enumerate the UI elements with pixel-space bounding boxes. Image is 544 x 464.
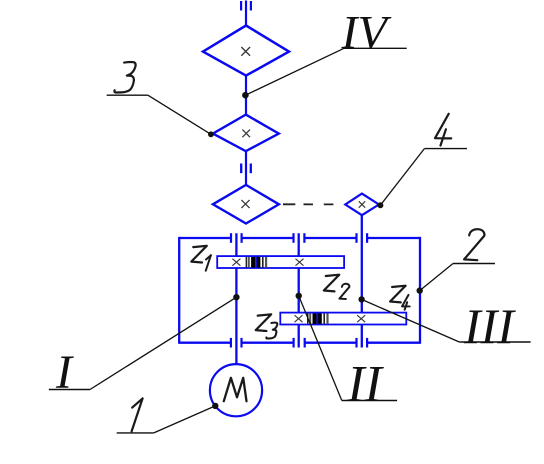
bearing on bottom edge at shaft III: [357, 338, 368, 348]
node at left vertex of middle diamond: [208, 131, 214, 137]
underline of label I: [49, 389, 90, 391]
gearbox housing left edge: [178, 237, 180, 344]
motor letter M: [224, 378, 247, 401]
leader line to label I: [90, 297, 236, 389]
underline of label III: [459, 341, 530, 343]
wire shaft III from diamond 4 down into gearbox: [361, 215, 363, 347]
x mark on lower gear at shaft II: [295, 315, 303, 322]
label 2: [464, 229, 484, 260]
bearing B5 (between diamond 2 and diamond 3): [241, 164, 251, 174]
leader line to label 3: [148, 95, 211, 134]
motor M circle: [210, 364, 262, 416]
leader line to label III: [362, 299, 460, 342]
bearing on bottom edge at shaft II: [294, 338, 305, 348]
underline of label II: [342, 400, 397, 402]
x mark in small diamond: [359, 201, 365, 207]
svg-text:IV: IV: [341, 7, 392, 60]
gear U1 (large diamond on shaft IV): [203, 26, 289, 76]
svg-text:II: II: [346, 356, 384, 413]
underline of label 3: [107, 94, 148, 96]
dashed link between diamond 3 and diamond 4: [283, 203, 345, 205]
underline of label 4: [424, 148, 467, 150]
blue divider inside upper gear hatch: [255, 256, 257, 268]
leader line to label 1: [154, 406, 216, 433]
node at right vertex of small diamond: [377, 202, 383, 208]
x mark in large diamond: [241, 47, 250, 56]
x mark in middle diamond: [242, 130, 250, 138]
label z1: [191, 246, 211, 271]
leader line to label 2: [420, 264, 453, 291]
gearbox housing right edge: [419, 237, 421, 344]
bearing on bottom edge at shaft I: [231, 338, 242, 348]
label z2: [324, 275, 350, 299]
bearing on top edge at shaft I: [231, 233, 242, 243]
underline of label 2: [453, 263, 495, 265]
bearing on top edge at shaft II: [294, 233, 305, 243]
node on housing right edge: [417, 287, 423, 293]
label z3: [256, 314, 278, 338]
gear block z1-z2 (upper gear rectangle): [217, 256, 344, 268]
label z4: [390, 286, 410, 310]
leader line to label IV: [245, 48, 344, 95]
node on shaft III: [358, 296, 364, 302]
svg-text:III: III: [463, 298, 516, 354]
leader line to label II: [299, 296, 342, 401]
gear block z3-z4 (lower gear rectangle): [280, 313, 406, 325]
node on motor circle: [212, 403, 218, 409]
label 4: [435, 114, 451, 146]
svg-text:I: I: [55, 346, 74, 399]
x mark on lower gear at shaft III: [357, 315, 365, 322]
x mark on gear at shaft II: [296, 259, 304, 266]
hatch block (mesh) on upper gear: [246, 257, 268, 268]
wire shaft IV upper segment: [245, 1, 247, 27]
underline of label 1: [117, 432, 154, 434]
label 3: [114, 62, 135, 92]
wire shaft between diamond 1 and diamond 2: [245, 76, 247, 115]
label 1: [132, 398, 143, 431]
gear U2 (middle diamond): [213, 115, 279, 152]
leader line to label 4: [380, 149, 424, 206]
gearbox housing bottom edge: [179, 342, 420, 344]
blue divider inside lower gear hatch: [316, 313, 318, 325]
hatch block (mesh) on lower gear: [307, 314, 329, 324]
x mark in lower diamond: [241, 200, 249, 208]
node on shaft I: [233, 294, 239, 300]
wire shaft I: [235, 233, 237, 364]
x mark on gear at shaft I: [232, 259, 240, 266]
wire shaft II: [298, 233, 300, 347]
gearbox housing top edge: [179, 237, 420, 239]
wire shaft between diamond 2 and diamond 3: [245, 151, 247, 185]
gear U4 (small diamond): [345, 194, 379, 216]
node on shaft II: [296, 293, 302, 299]
node on shaft IV (leader attach point): [242, 92, 249, 99]
bearing B4 (top support of shaft IV): [241, 1, 251, 11]
gear U3 (lower diamond): [213, 185, 279, 224]
bearing on top edge at shaft III: [357, 233, 368, 243]
underline of label IV: [344, 47, 407, 49]
